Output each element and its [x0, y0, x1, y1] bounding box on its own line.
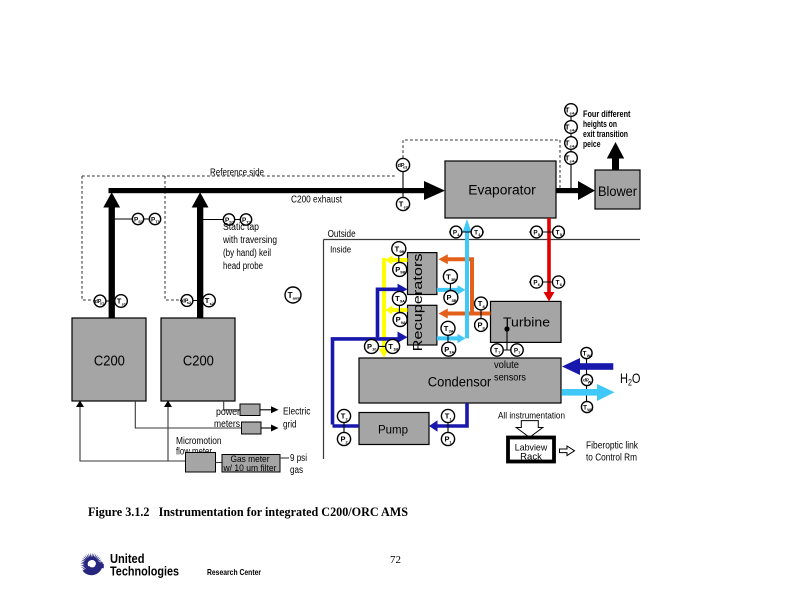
C200 microturbine #1	[72, 318, 146, 401]
svg-text:with traversing: with traversing	[222, 235, 277, 246]
svg-text:e4-1: e4-1	[570, 110, 579, 115]
sensor T_2	[337, 409, 350, 422]
red pipe: evaporator to turbine	[547, 218, 551, 293]
svg-text:w/ 10 um filter: w/ 10 um filter	[223, 463, 277, 474]
fuel line to C200 #1	[80, 405, 186, 461]
riser pipe from C200 #2	[197, 205, 203, 318]
svg-text:Micromotion: Micromotion	[176, 436, 222, 447]
svg-text:9A: 9A	[401, 320, 406, 325]
svg-text:Static tap: Static tap	[223, 222, 259, 233]
sensor T_7	[491, 344, 503, 356]
riser pipe from C200 #1	[109, 205, 115, 318]
gas meter box	[222, 454, 280, 474]
C200 microturbine #2	[161, 318, 235, 401]
svg-text:9A: 9A	[400, 299, 405, 304]
svg-text:e4-2: e4-2	[570, 127, 579, 132]
sensor P_T1	[149, 213, 160, 224]
arrowhead into evaporator	[424, 181, 445, 200]
sensor T_s2	[203, 294, 216, 307]
sensor P_T2	[240, 214, 251, 225]
svg-text:10: 10	[372, 347, 376, 352]
svg-text:W: W	[588, 379, 592, 384]
arrows to electric grid	[260, 410, 271, 428]
sensor P_S2	[223, 214, 235, 225]
sensor P_1	[441, 432, 454, 445]
svg-text:C200: C200	[183, 353, 214, 370]
sensor P_7	[511, 344, 523, 356]
svg-text:head probe: head probe	[223, 261, 263, 272]
pump	[359, 413, 429, 445]
sensor T_4	[471, 226, 483, 238]
svg-text:W2: W2	[587, 407, 594, 412]
blower exit arrow	[607, 142, 624, 170]
svg-text:Rack: Rack	[520, 452, 542, 463]
sensor T_1	[441, 409, 454, 422]
gas meter connector	[216, 462, 223, 464]
svg-text:Research Center: Research Center	[207, 567, 262, 577]
inside/outside boundary wall	[324, 240, 641, 460]
svg-text:amb: amb	[293, 295, 302, 300]
orange arrowheads	[439, 254, 448, 264]
svg-text:1B: 1B	[393, 347, 398, 352]
micromotion flow meter box	[186, 453, 216, 473]
svg-text:W1: W1	[587, 353, 594, 358]
svg-text:Figure 3.1.2 Instrumentation: Figure 3.1.2 Instrumentation for integra…	[88, 505, 408, 519]
yellow arrowheads	[385, 255, 392, 265]
svg-text:grid: grid	[283, 420, 297, 431]
sensor P_8	[475, 319, 488, 332]
svg-text:Blower: Blower	[598, 184, 638, 199]
recuperator upper	[408, 253, 437, 295]
svg-text:C200: C200	[94, 353, 125, 370]
power line C200#2 to meter1	[135, 401, 241, 428]
hollow right arrow	[560, 446, 575, 456]
svg-text:Condensor: Condensor	[428, 375, 492, 390]
united technologies wordmark	[110, 552, 262, 579]
hollow down arrow	[516, 421, 543, 438]
C200 exhaust duct (horizontal)	[109, 188, 425, 193]
sensor stub lines	[93, 116, 587, 445]
sensor T_9B	[392, 242, 406, 256]
svg-text:All instrumentation: All instrumentation	[498, 411, 565, 422]
turbine volute tap dot	[504, 326, 509, 331]
navy arrowheads into recuperators	[398, 284, 408, 295]
H2O supply arrow (navy, into condenser)	[562, 358, 613, 375]
sensor T_amb	[285, 287, 301, 303]
svg-text:Pump: Pump	[378, 424, 408, 437]
sensor T_6	[552, 276, 564, 288]
svg-text:Technologies: Technologies	[110, 565, 179, 579]
sensor T_5	[553, 226, 565, 238]
svg-text:H2O: H2O	[620, 370, 641, 388]
sensor P_S1	[132, 213, 144, 224]
svg-text:Recuperators: Recuperators	[410, 253, 425, 351]
sensor T_e3	[396, 197, 409, 210]
navy pipe: condenser to pump	[437, 403, 467, 426]
sensor T_s1	[115, 295, 128, 308]
svg-text:heights on: heights on	[583, 119, 617, 129]
power meter 1	[240, 404, 260, 416]
sensor T_1B	[386, 339, 400, 353]
sensor T_W2	[581, 401, 593, 412]
svg-text:sensors: sensors	[494, 373, 526, 384]
svg-text:e4-4: e4-4	[570, 158, 579, 163]
svg-text:Electric: Electric	[283, 407, 311, 418]
svg-text:9B: 9B	[400, 270, 405, 275]
svg-text:(by hand) keil: (by hand) keil	[223, 248, 271, 259]
svg-text:9B: 9B	[399, 249, 404, 254]
sensor dP_W	[581, 374, 592, 385]
reference-side dashed line	[82, 140, 560, 300]
sensor dP_e3	[396, 158, 409, 171]
9 psi gas supply line	[280, 457, 289, 459]
blower	[595, 170, 640, 209]
svg-text:peice: peice	[583, 139, 601, 149]
svg-text:e4-3: e4-3	[570, 143, 579, 148]
power meter 2	[242, 422, 262, 434]
labview rack box	[508, 438, 554, 463]
svg-text:7: 7	[498, 350, 500, 355]
svg-text:Inside: Inside	[330, 244, 351, 255]
svg-text:C200 exhaust: C200 exhaust	[291, 195, 342, 206]
sensor T_3A	[441, 321, 455, 335]
sensor P_6	[530, 276, 542, 288]
svg-text:3A: 3A	[449, 350, 454, 355]
svg-text:Evaporator: Evaporator	[468, 183, 536, 198]
svg-text:3B: 3B	[451, 277, 456, 282]
svg-text:to Control Rm: to Control Rm	[586, 453, 637, 464]
sensor P_3A	[442, 342, 456, 356]
evaporator	[445, 161, 556, 218]
sensor P_5	[531, 226, 543, 238]
svg-text:gas: gas	[290, 465, 303, 476]
navy pipe: pump discharge to recuperators	[333, 289, 399, 426]
sensor T_e4-1	[565, 104, 579, 117]
sensor P_10	[365, 339, 379, 353]
exhaust duct evaporator to blower	[556, 188, 579, 193]
H2O return arrow (cyan, out of condenser)	[562, 384, 615, 401]
sensor T_e4-4	[565, 152, 579, 165]
sensor P_9B	[393, 262, 407, 276]
sensor T_W1	[581, 347, 593, 358]
svg-text:S1: S1	[138, 219, 144, 224]
svg-text:power: power	[216, 407, 241, 418]
sensor T_9A	[392, 291, 406, 305]
svg-text:Fiberoptic link: Fiberoptic link	[586, 441, 639, 452]
svg-text:72: 72	[390, 554, 401, 566]
arrowhead into blower	[578, 181, 595, 200]
svg-text:Outside: Outside	[328, 229, 356, 240]
svg-text:3B: 3B	[451, 298, 456, 303]
yellow pipe: recuperator liquid out, down to condenser	[384, 258, 408, 349]
svg-text:7: 7	[518, 350, 520, 355]
sensor dP_s2	[181, 295, 193, 307]
svg-text:9 psi: 9 psi	[290, 453, 307, 464]
svg-text:Turbine: Turbine	[503, 315, 550, 330]
united technologies logo	[80, 553, 104, 575]
sensor T_8	[475, 297, 488, 310]
svg-text:exit transition: exit transition	[583, 129, 628, 139]
sensor T_e4-3	[565, 137, 579, 150]
svg-text:Four different: Four different	[583, 109, 631, 119]
sensor P_4	[450, 226, 462, 238]
sensor T_3B	[443, 270, 457, 284]
svg-text:3A: 3A	[449, 329, 454, 334]
cyan pipe: recuperator vapor out, up to evaporator	[437, 228, 467, 338]
svg-text:meters: meters	[214, 419, 240, 430]
recuperator lower	[408, 305, 437, 345]
cyan arrowheads	[458, 285, 466, 294]
svg-text:Reference side: Reference side	[210, 168, 264, 179]
sensor T_e4-2	[565, 121, 579, 134]
condenser	[359, 358, 561, 403]
sensor P_3B	[444, 291, 458, 305]
svg-text:volute: volute	[494, 360, 519, 371]
turbine	[491, 301, 562, 342]
sensor P_9A	[393, 313, 407, 327]
sensor P_2	[337, 432, 350, 445]
sensor dP_s1	[94, 295, 106, 307]
orange pipe: turbine exhaust to recuperators	[447, 259, 491, 313]
